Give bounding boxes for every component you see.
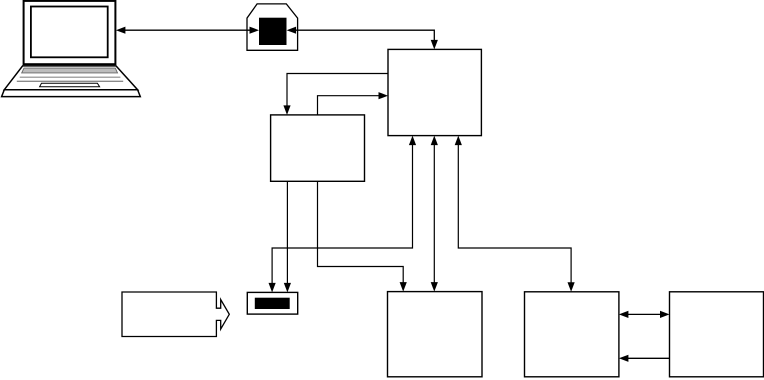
display black screen: [255, 298, 290, 309]
laptop touchpad: [40, 83, 100, 87]
arrowhead into U2 top: [283, 105, 290, 115]
arrowhead down into block C top: [400, 282, 407, 292]
wire U2 bottom to display (arrow down): [284, 181, 291, 292]
usb connector outline: [247, 4, 298, 50]
wire main block bottom to block C (bidirectional vertical): [431, 136, 438, 292]
laptop (host PC): [2, 1, 141, 97]
wire main block bottom to display (bidirectional elbow): [269, 136, 417, 293]
arrowhead up into main block bottom: [455, 136, 462, 146]
callout signal shape (rectangle with right arrow notch): [122, 292, 229, 337]
arrowhead into usb left: [250, 27, 260, 34]
laptop keyboard row line 2: [20, 76, 121, 78]
arrowhead up into main block bottom: [409, 136, 416, 146]
block C: [388, 292, 483, 377]
laptop keyboard band 1: [22, 68, 118, 73]
arrowhead down into block D top: [568, 282, 575, 292]
arrowhead down into display top: [284, 283, 291, 293]
laptop base top: [4, 66, 137, 90]
arrowhead into main block left: [379, 92, 389, 99]
wire main block left to U2 top (arrow down): [283, 74, 388, 115]
laptop keyboard row line 3: [17, 80, 123, 82]
arrowhead down into block C top: [431, 282, 438, 292]
wire U2 top to main block left (arrow right): [318, 92, 389, 115]
display outer frame: [247, 292, 297, 314]
arrowhead into usb right: [287, 27, 297, 34]
laptop front skirt: [2, 90, 141, 97]
wire block E to block D lower (arrow left): [619, 355, 670, 362]
block D: [525, 292, 619, 377]
arrowhead into laptop: [116, 27, 126, 34]
block U2 secondary: [271, 115, 365, 181]
block E: [670, 292, 764, 377]
arrowhead up into main block bottom: [431, 136, 438, 146]
usb connector icon: [247, 4, 298, 50]
laptop screen inner: [31, 7, 108, 58]
wire block D to block E upper (bidirectional): [619, 311, 670, 318]
arrowhead into block D right: [619, 311, 629, 318]
wire laptop to usb (bidirectional): [116, 27, 259, 34]
wire usb to main block (elbow, bidirectional): [287, 27, 438, 50]
block U1 main controller: [388, 49, 481, 135]
arrowhead into block E left: [660, 311, 670, 318]
arrowhead into block D right: [619, 355, 629, 362]
wire main block bottom to block D (bidirectional elbow): [455, 136, 575, 292]
wire U2 bottom to block C (elbow, arrow down): [318, 181, 407, 291]
display module (LCD): [247, 292, 297, 314]
usb connector black core: [259, 18, 287, 45]
laptop screen outer: [24, 1, 116, 64]
arrowhead down into main block top: [431, 40, 438, 50]
arrowhead down into display top: [269, 283, 276, 293]
